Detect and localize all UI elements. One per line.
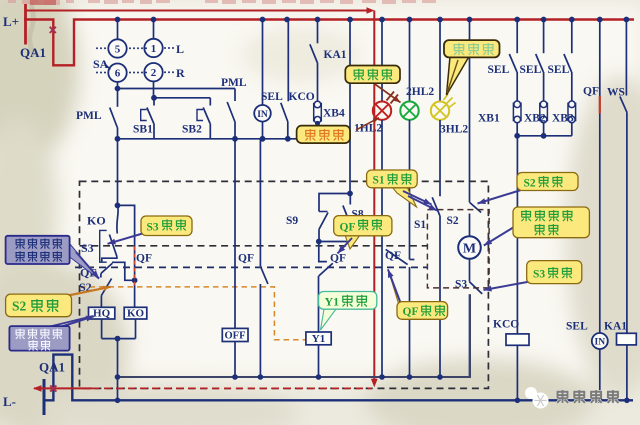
svg-text:XB3: XB3	[552, 113, 574, 125]
contact SB1 (pushbutton)	[153, 98, 155, 106]
wire mid return rail	[118, 294, 471, 377]
svg-text:PML: PML	[76, 110, 102, 122]
switch QA1 (top disconnect)	[24, 20, 634, 66]
svg-text:SEL: SEL	[566, 321, 588, 333]
dashed orange segment on KO branch	[134, 247, 136, 288]
coil Y1 (trip coil)	[306, 332, 331, 345]
svg-text:XB4: XB4	[323, 108, 345, 120]
svg-text:2HL2: 2HL2	[406, 86, 434, 98]
callout S3 open	[484, 282, 531, 291]
wire top red feeder to arrow	[26, 10, 368, 12]
svg-text:OFF: OFF	[225, 331, 246, 342]
svg-text:Y1: Y1	[312, 333, 325, 345]
svg-text:S9: S9	[286, 215, 298, 227]
contact SB2 (pushbutton)	[209, 105, 211, 107]
motor M	[458, 236, 481, 259]
wire fuse join	[516, 123, 518, 136]
callout S1 closed	[392, 187, 417, 207]
coil KA1	[617, 333, 637, 345]
red return arrow along box bottom	[92, 387, 372, 389]
coil KO	[124, 307, 147, 319]
callout Y1 energized	[321, 309, 337, 330]
wire KO coil branch	[118, 205, 135, 280]
svg-text:QF: QF	[385, 250, 401, 262]
svg-text:S2: S2	[447, 215, 459, 227]
svg-text:IN: IN	[595, 338, 606, 348]
svg-text:R: R	[176, 66, 185, 80]
callout QF closed	[388, 269, 404, 313]
callout S2 closed	[68, 287, 111, 296]
dashed linkage S-contacts	[80, 245, 428, 247]
cross mark on QA1 feed	[50, 27, 56, 33]
svg-text:QA1: QA1	[20, 45, 46, 60]
svg-text:SEL: SEL	[261, 91, 283, 103]
fuse XB4	[314, 104, 322, 121]
svg-text:S2: S2	[524, 178, 536, 190]
svg-text:SEL: SEL	[548, 64, 570, 76]
svg-text:QF: QF	[403, 306, 419, 318]
watermark logo	[525, 387, 537, 399]
svg-text:XB2: XB2	[524, 113, 546, 125]
dashed operating-state box A	[80, 181, 489, 388]
dashed box B (S contacts)	[427, 210, 489, 288]
svg-text:S1: S1	[373, 175, 385, 187]
fuse XB3	[568, 103, 576, 120]
lamp 1HL2 (red)	[381, 20, 383, 102]
callout yellow-lamp-on	[447, 57, 470, 96]
svg-text:S1: S1	[414, 219, 426, 231]
coil IN (SEL indicator)	[262, 20, 264, 106]
callout aux-contact-change (grey)	[70, 244, 99, 280]
svg-text:1: 1	[151, 43, 157, 55]
dashed orange trip path	[80, 287, 306, 340]
callout QF opened	[345, 235, 360, 249]
title fragments	[8, 0, 16, 3]
svg-text:XB1: XB1	[478, 113, 500, 125]
svg-text:KA1: KA1	[604, 321, 627, 333]
svg-text:IN: IN	[257, 110, 268, 120]
svg-text:KCO: KCO	[289, 91, 315, 103]
svg-text:5: 5	[115, 44, 121, 56]
svg-text:SA: SA	[93, 57, 109, 71]
svg-text:S3: S3	[81, 241, 94, 255]
svg-text:QF: QF	[330, 253, 346, 265]
svg-text:PML: PML	[221, 77, 247, 89]
svg-text:KO: KO	[127, 308, 145, 320]
wire KCO column	[516, 136, 518, 334]
bus junction dots	[115, 17, 121, 23]
lamp 3HL2 (yellow, blinking)	[439, 20, 441, 102]
svg-text:QA1: QA1	[39, 360, 65, 375]
selector SA contacts 5/1/6/2	[117, 20, 119, 40]
wire joining row y=138.8	[118, 138, 297, 140]
svg-text:SB2: SB2	[182, 124, 202, 136]
wire S9/S8 feeder from bus	[349, 20, 351, 66]
svg-text:QF: QF	[238, 253, 254, 265]
dashed linkage QF	[75, 266, 427, 268]
fuse XB1	[513, 103, 521, 120]
svg-text:QF: QF	[340, 222, 356, 234]
coil HQ (closing coil)	[89, 307, 115, 319]
svg-text:S3: S3	[533, 269, 545, 281]
svg-text:M: M	[463, 242, 476, 257]
contact S2 (motor string)	[469, 20, 471, 203]
svg-text:SEL: SEL	[488, 64, 510, 76]
svg-text:WS: WS	[607, 87, 625, 99]
callout closing-coil-deenergized (grey)	[50, 316, 93, 327]
svg-text:Y1: Y1	[325, 295, 340, 309]
callout S3 closed	[108, 233, 147, 244]
svg-text:6: 6	[115, 68, 121, 80]
switch QA1 (bottom disconnect)	[44, 355, 633, 401]
wire red vertical highlight path	[373, 11, 375, 382]
svg-text:HQ: HQ	[93, 308, 111, 320]
wire left column from PML row	[117, 139, 119, 206]
node L- rail	[43, 379, 46, 415]
svg-text:KCO: KCO	[493, 319, 519, 331]
svg-text:3HL2: 3HL2	[440, 124, 468, 136]
coil SEL (IN)	[592, 333, 608, 349]
svg-text:QF: QF	[136, 253, 152, 265]
wire HQ/KO join	[101, 319, 103, 339]
node L+ terminal	[24, 4, 27, 45]
wire row feeds	[118, 88, 236, 90]
coil OFF	[222, 328, 248, 341]
fuse XB2	[540, 103, 548, 120]
svg-text:KO: KO	[87, 214, 106, 228]
contact PML left	[117, 89, 119, 107]
svg-text:S3: S3	[147, 222, 159, 234]
svg-text:SB1: SB1	[133, 124, 153, 136]
lamp 2HL2 (green)	[409, 20, 411, 102]
contacts S9/S8 parallel	[319, 194, 350, 212]
callout red-lamp-on	[356, 118, 379, 130]
svg-text:L: L	[176, 42, 184, 56]
contacts SEL x3	[516, 20, 518, 54]
svg-text:2: 2	[151, 67, 157, 79]
callout green-lamp-off	[372, 82, 401, 103]
wire OFF column	[234, 139, 236, 329]
svg-text:SEL: SEL	[520, 64, 542, 76]
svg-text:S2: S2	[12, 299, 27, 314]
svg-text:L-: L-	[3, 394, 16, 409]
callout S2 open	[478, 190, 522, 204]
callout motor-stopped	[484, 227, 514, 246]
svg-text:QF: QF	[583, 86, 599, 98]
svg-text:L+: L+	[3, 14, 19, 29]
coil KCO	[506, 334, 529, 345]
svg-text:KA1: KA1	[324, 49, 347, 61]
svg-text:S3: S3	[455, 279, 467, 291]
